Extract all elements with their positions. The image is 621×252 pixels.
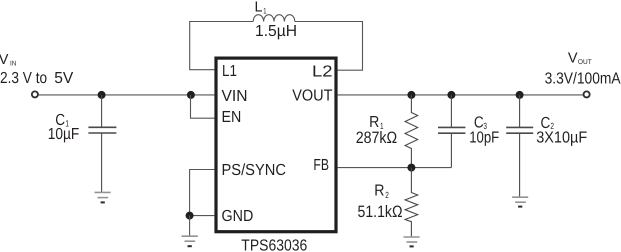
output terminal (584, 91, 590, 97)
junction dot: FB / R1 / R2 (407, 164, 415, 172)
junction dot: VOUT / C3 (447, 91, 455, 99)
wire: input terminal to VIN pin (38, 94, 215, 96)
svg-text:IN: IN (10, 60, 16, 67)
svg-text:R: R (374, 183, 384, 200)
wire: inductor to L2 pin (295, 22, 363, 71)
IC U1 TPS63036 body (216, 58, 336, 232)
inductor L1 coil (253, 15, 295, 22)
resistor R1 (405, 95, 418, 168)
svg-text:EN: EN (222, 109, 242, 126)
svg-text:2.3 V to: 2.3 V to (0, 70, 47, 87)
wire: GND junction down to ground (189, 216, 191, 236)
ground (GND pin) (182, 236, 198, 246)
input terminal (32, 91, 38, 97)
capacitor C1 (88, 95, 116, 192)
svg-text:VOUT: VOUT (292, 87, 332, 104)
svg-text:2: 2 (385, 190, 389, 200)
junction dot: VOUT / C2 (516, 91, 524, 99)
junction dot: VIN / EN branch (187, 91, 195, 99)
svg-text:51.1kΩ: 51.1kΩ (358, 203, 403, 221)
wire: EN branch (191, 95, 215, 118)
svg-text:3.3V/100mA: 3.3V/100mA (545, 70, 621, 87)
wire: L1 pin up to inductor (190, 22, 254, 70)
wire: GND pin (190, 215, 215, 217)
svg-text:OUT: OUT (578, 59, 592, 66)
capacitor C3 (438, 95, 465, 168)
wire: VOUT to output terminal (338, 94, 584, 96)
svg-text:10pF: 10pF (469, 130, 499, 147)
junction dot: GND / PS-SYNC (186, 212, 194, 220)
wire: FB (338, 167, 452, 169)
svg-text:10µF: 10µF (48, 126, 80, 143)
svg-text:1: 1 (263, 7, 267, 16)
svg-text:287kΩ: 287kΩ (356, 129, 398, 147)
svg-text:5V: 5V (54, 70, 73, 87)
svg-text:L: L (255, 0, 263, 15)
svg-text:L1: L1 (222, 63, 237, 80)
svg-text:3X10µF: 3X10µF (536, 130, 587, 147)
svg-text:PS/SYNC: PS/SYNC (222, 162, 287, 179)
capacitor C2 (506, 95, 533, 197)
svg-text:VIN: VIN (222, 88, 248, 105)
svg-text:1.5µH: 1.5µH (255, 23, 297, 40)
junction dot: VOUT / R1 (407, 91, 415, 99)
ground (R2) (404, 237, 420, 246)
ground (C1) (95, 192, 111, 202)
svg-text:GND: GND (222, 208, 254, 225)
svg-text:V: V (0, 52, 9, 68)
ground (C2) (512, 197, 528, 206)
resistor R2 (405, 168, 418, 237)
wire: PS/SYNC to GND junction (190, 170, 215, 216)
svg-text:FB: FB (313, 157, 329, 174)
svg-text:TPS63036: TPS63036 (241, 238, 307, 252)
svg-text:V: V (568, 51, 578, 67)
svg-text:L2: L2 (312, 63, 333, 80)
junction dot: VIN / C1 (98, 91, 106, 99)
